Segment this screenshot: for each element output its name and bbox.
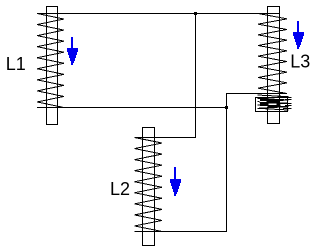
inductor L3 compressed winding box [256, 98, 288, 112]
wire L2 top horizontal [135, 137, 197, 139]
wire vertical right: from L3 bottom net down to L2 bottom [226, 93, 228, 232]
inductor L2 winding [135, 138, 163, 232]
arrow current direction of L3 (blue) [293, 21, 304, 49]
inductor L3 dense winding white notches [260, 101, 277, 107]
svg-text:L2: L2 [110, 179, 130, 199]
inductor L1 winding [37, 14, 64, 108]
inductor L2 core rectangle [143, 128, 155, 246]
wire vertical from top junction down toward L2 top [195, 14, 197, 139]
svg-text:L3: L3 [290, 52, 310, 72]
inductor L1 core rectangle [47, 7, 58, 125]
wire top net: L1 top to L3 top [37, 13, 280, 15]
wire L1 bottom horizontal to right junction [37, 107, 227, 109]
wire L2 bottom horizontal [135, 231, 228, 233]
node junction dot at (195.5,13.5) [194, 12, 197, 15]
inductor L3 dense winding hatch [258, 95, 289, 110]
wire horizontal to L3 bottom winding [227, 93, 287, 95]
inductor L3 core rectangle [268, 7, 280, 124]
arrow current direction of L1 (blue) [67, 37, 78, 65]
inductor L3 winding [258, 14, 287, 94]
svg-text:L1: L1 [6, 54, 26, 74]
node junction dot at (226.5,107.5) [225, 106, 228, 109]
arrow current direction of L2 (blue) [170, 167, 181, 196]
inductor L3 dense winding solid blob [260, 99, 280, 107]
inductor L3 dense winding right tails [283, 98, 292, 109]
